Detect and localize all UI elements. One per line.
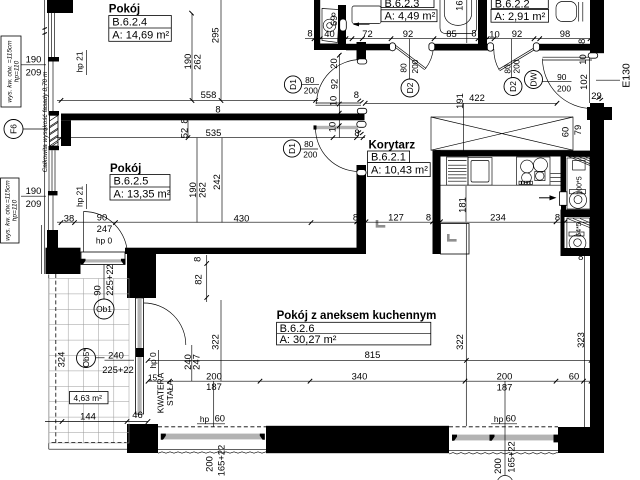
leader line F6 bbox=[23, 128, 48, 130]
door reference circle D1 (B.6.2.4) bbox=[284, 76, 301, 93]
svg-text:8: 8 bbox=[354, 127, 359, 138]
svg-text:hp: hp bbox=[200, 414, 210, 424]
door hinge nib on corner block bbox=[80, 259, 85, 264]
dim line H1 over bathroom doors y=38.7 bbox=[305, 38, 592, 40]
svg-text:322: 322 bbox=[210, 334, 221, 350]
balcony dashed edge lines bbox=[55, 274, 57, 443]
fraction line 190/209 lower bbox=[21, 195, 46, 197]
ventilation arrow to shaft bbox=[539, 197, 551, 199]
wall: bottom wall of B.6.2.5 (to corridor) bbox=[125, 248, 365, 254]
opening reference circle Ob5* bbox=[77, 349, 96, 368]
svg-text:240: 240 bbox=[108, 349, 124, 360]
balcony tile grid lines bbox=[49, 279, 129, 444]
kitchen counter edge line bbox=[441, 184, 561, 186]
vertical line hp21 lower bbox=[86, 184, 88, 209]
svg-text:52: 52 bbox=[179, 128, 190, 138]
vertical dim line V14 (Ob1 leader) bbox=[103, 265, 105, 300]
vertical fraction line 240/247 bbox=[191, 345, 193, 381]
svg-text:422: 422 bbox=[469, 92, 485, 103]
svg-text:72: 72 bbox=[362, 28, 372, 39]
svg-text:181: 181 bbox=[456, 197, 467, 213]
svg-text:190: 190 bbox=[26, 185, 42, 196]
wall: corridor west wall upper stub bbox=[357, 42, 367, 60]
svg-text:234: 234 bbox=[490, 212, 506, 223]
svg-text:E130: E130 bbox=[621, 63, 633, 88]
wall cap below window W1 bbox=[48, 57, 59, 62]
door reference circle D1 (B.6.2.5) bbox=[283, 140, 300, 157]
svg-text:B.6.2.2: B.6.2.2 bbox=[495, 0, 530, 10]
shaft vent white box bbox=[560, 192, 568, 206]
svg-text:80: 80 bbox=[305, 75, 315, 85]
shaft compartment 1 box bbox=[567, 158, 590, 209]
svg-text:20: 20 bbox=[328, 58, 339, 68]
vertical line at D2 circle B.6.2.2 bbox=[511, 39, 513, 78]
svg-text:hp 0: hp 0 bbox=[96, 236, 113, 246]
svg-text:191: 191 bbox=[454, 93, 465, 109]
svg-text:100*5: 100*5 bbox=[577, 176, 584, 194]
svg-text:144: 144 bbox=[80, 410, 96, 421]
svg-text:92: 92 bbox=[328, 79, 339, 89]
wall: shaft bottom block bbox=[561, 248, 592, 256]
wall: SE exterior corner block bbox=[558, 427, 604, 453]
opening reference circle Ob1 bbox=[94, 299, 114, 319]
wall: top-left exterior block bbox=[47, 0, 73, 13]
svg-text:D1: D1 bbox=[288, 79, 298, 90]
svg-text:60: 60 bbox=[215, 413, 225, 424]
svg-text:A: 30,27 m²: A: 30,27 m² bbox=[280, 334, 337, 346]
svg-text:190: 190 bbox=[26, 53, 42, 64]
vertical short line 52/8 left bbox=[187, 121, 189, 138]
wall: shaft partition left upper bbox=[561, 156, 567, 192]
svg-text:A: 2,91 m²: A: 2,91 m² bbox=[495, 11, 546, 23]
svg-text:Ob1: Ob1 bbox=[96, 304, 112, 314]
wall: left pier below (thin lines then solid) bbox=[48, 195, 53, 231]
wall: corridor east / kitchen west wall bbox=[433, 151, 441, 254]
svg-text:D2: D2 bbox=[405, 82, 415, 93]
svg-text:8: 8 bbox=[215, 103, 220, 114]
wall cap below hatched pier bbox=[49, 146, 60, 150]
wall: shaft partition left lower bbox=[561, 217, 565, 248]
svg-text:60: 60 bbox=[506, 413, 516, 424]
svg-text:225+22: 225+22 bbox=[102, 364, 134, 375]
svg-text:69: 69 bbox=[328, 16, 339, 26]
svg-text:Pokój: Pokój bbox=[109, 4, 140, 16]
vertical dim line V10 (hp60 left window) bbox=[213, 381, 215, 426]
svg-text:STAŁA: STAŁA bbox=[165, 380, 175, 406]
svg-text:10: 10 bbox=[328, 96, 339, 106]
svg-text:B.6.2.5: B.6.2.5 bbox=[114, 176, 149, 188]
wall: stub below main wall at left bbox=[61, 120, 71, 146]
wall: shaft horizontal band bbox=[561, 210, 591, 218]
wall: kitchen north wall bbox=[435, 151, 592, 157]
svg-text:815: 815 bbox=[365, 349, 381, 360]
svg-text:29: 29 bbox=[591, 90, 601, 101]
room label B.6.2.2 bbox=[491, 0, 548, 8]
svg-text:209: 209 bbox=[26, 67, 42, 78]
svg-text:247: 247 bbox=[191, 354, 202, 370]
dim line H9 balcony y=421.5 bbox=[45, 421, 148, 423]
wall: B.6.2.3 south wall (left of door) bbox=[346, 44, 391, 51]
svg-text:8: 8 bbox=[471, 28, 476, 39]
balcony slab edge bottom bbox=[49, 448, 129, 450]
floor level mark corridor bbox=[377, 220, 385, 226]
shaft pipe stack 2 (toilet symbol) bbox=[569, 232, 584, 236]
svg-text:187: 187 bbox=[497, 382, 513, 393]
svg-text:Korytarz: Korytarz bbox=[369, 140, 416, 152]
svg-text:200: 200 bbox=[492, 458, 503, 474]
wall: east exterior wall column bbox=[590, 103, 604, 443]
svg-text:200: 200 bbox=[304, 86, 318, 96]
kitchen appliance (fridge) hatched box bbox=[447, 157, 469, 185]
wall: pillar at balcony NE bbox=[127, 254, 156, 298]
washbasin in shaft closet (40x69) bbox=[322, 9, 340, 43]
svg-text:322: 322 bbox=[454, 334, 465, 350]
svg-text:90: 90 bbox=[557, 72, 567, 82]
svg-text:558: 558 bbox=[201, 89, 217, 100]
wall: south wall between windows bbox=[266, 426, 449, 453]
svg-text:102: 102 bbox=[578, 74, 589, 90]
svg-text:4,63 m²: 4,63 m² bbox=[74, 393, 103, 403]
shaft compartment 2 box bbox=[567, 218, 590, 249]
svg-text:295: 295 bbox=[210, 27, 221, 43]
door reference circle DW bbox=[525, 71, 543, 89]
door reference circle D2 (B.6.2.2) bbox=[504, 78, 522, 96]
fixed glazing west wall (KWATERA STALA) bbox=[136, 298, 144, 414]
svg-text:wys. kw. otw.=115cm: wys. kw. otw.=115cm bbox=[5, 180, 12, 241]
svg-text:60: 60 bbox=[569, 371, 579, 382]
svg-text:187: 187 bbox=[206, 381, 222, 392]
facade reference circle F6 bbox=[4, 120, 23, 139]
svg-text:79: 79 bbox=[572, 125, 583, 135]
svg-text:225+22: 225+22 bbox=[104, 264, 115, 296]
svg-text:B.6.2.1: B.6.2.1 bbox=[371, 152, 406, 164]
svg-text:340: 340 bbox=[352, 371, 368, 382]
vertical dim line V4 (242) bbox=[221, 138, 223, 223]
dim line H3 "422" y=103.3 bbox=[365, 102, 557, 104]
svg-text:165+22: 165+22 bbox=[215, 445, 226, 477]
svg-text:hp=110: hp=110 bbox=[12, 199, 19, 221]
svg-text:8: 8 bbox=[307, 28, 312, 39]
svg-text:8: 8 bbox=[555, 212, 560, 223]
floor level mark kitchen/living bbox=[448, 234, 456, 240]
dim line H4 "535" y=137.6 bbox=[57, 137, 365, 139]
wall: NE exterior corner bbox=[590, 0, 604, 53]
svg-text:127: 127 bbox=[388, 212, 404, 223]
south window 2 (living room) bbox=[449, 426, 559, 454]
crossed ceiling rectangle over kitchen bbox=[431, 117, 573, 150]
svg-text:8: 8 bbox=[354, 89, 359, 100]
fraction/leader line DW 90/200 bbox=[543, 81, 572, 83]
dim line H6 B.6.2.5 south y=222.6 bbox=[57, 221, 352, 223]
vertical dim line V9 (322 left) bbox=[220, 300, 222, 381]
partition white box corridor/living bbox=[441, 224, 470, 255]
wall: shaft left wall (top middle) bbox=[314, 0, 320, 50]
door D1 to B.6.2.4: leaf open + swing arc bbox=[316, 103, 362, 105]
svg-text:8: 8 bbox=[179, 118, 190, 123]
wall: shaft right wall with door jamb bbox=[338, 5, 346, 44]
leader line E130 bbox=[596, 79, 620, 81]
wall: shaft bottom wall bbox=[314, 44, 346, 51]
door D2 to B.6.2.3: diagonal leaf + arc + jambs bbox=[394, 45, 426, 70]
wall: corridor west wall lower bbox=[357, 165, 367, 254]
vertical line hp21 upper bbox=[86, 50, 88, 75]
svg-text:10: 10 bbox=[327, 122, 338, 132]
svg-text:60: 60 bbox=[560, 127, 571, 137]
tick pair at wall 8 right of D1 bbox=[358, 99, 364, 104]
svg-text:160: 160 bbox=[454, 0, 465, 11]
left annotation box upper bbox=[1, 36, 21, 107]
svg-text:8: 8 bbox=[353, 212, 358, 223]
svg-text:200: 200 bbox=[410, 59, 420, 73]
washbasin in B.6.2.2 bbox=[556, 2, 577, 22]
fraction line D1 lower 80/200 bbox=[301, 148, 318, 150]
wall: south window wall corner block W bbox=[127, 424, 158, 453]
svg-text:A: 10,43 m²: A: 10,43 m² bbox=[371, 165, 428, 177]
svg-text:323: 323 bbox=[575, 332, 586, 348]
svg-text:Pokój z aneksem kuchennym: Pokój z aneksem kuchennym bbox=[277, 310, 437, 322]
balcony slab edge left bbox=[48, 275, 50, 450]
wall: main interior wall between B.6.2.4 and B.6.2.5 bbox=[61, 114, 365, 121]
kitchen stove with burners bbox=[517, 157, 551, 185]
svg-text:A: 13,35 m²: A: 13,35 m² bbox=[114, 189, 171, 201]
vertical dim line V5 (20/92/10 door D1) bbox=[338, 54, 340, 138]
svg-text:430: 430 bbox=[234, 212, 250, 223]
svg-text:82: 82 bbox=[192, 274, 203, 284]
svg-text:98: 98 bbox=[560, 28, 570, 39]
svg-text:92: 92 bbox=[403, 28, 413, 39]
svg-text:80: 80 bbox=[399, 63, 409, 73]
svg-text:B.6.2.3: B.6.2.3 bbox=[385, 0, 420, 10]
svg-text:242: 242 bbox=[211, 174, 222, 190]
svg-text:200: 200 bbox=[303, 150, 317, 160]
vertical dim line V7 (191 corridor) bbox=[463, 103, 465, 152]
bathtub in B.6.2.3 bbox=[440, 0, 477, 34]
dim line H5 corridor/kitchen y=221.8 bbox=[352, 221, 592, 223]
wall cap above hatched pier bbox=[49, 111, 60, 115]
svg-text:90: 90 bbox=[97, 212, 107, 223]
underline hp60 right bbox=[491, 423, 517, 425]
vertical dim line V1 (190/262 B.6.2.4) bbox=[191, 13, 193, 100]
svg-text:8: 8 bbox=[191, 257, 202, 262]
svg-text:hp=110: hp=110 bbox=[14, 60, 21, 82]
svg-text:D1: D1 bbox=[287, 143, 297, 154]
vertical line hp0 glazing bbox=[158, 350, 160, 377]
svg-text:46: 46 bbox=[132, 409, 142, 420]
svg-text:200: 200 bbox=[511, 59, 521, 73]
dim line H2 "558" y=100.4 bbox=[57, 99, 318, 101]
svg-text:90: 90 bbox=[91, 285, 102, 295]
svg-text:B.6.2.4: B.6.2.4 bbox=[112, 16, 147, 28]
svg-text:Ob5*: Ob5* bbox=[81, 348, 91, 368]
svg-text:A: 4,49 m²: A: 4,49 m² bbox=[385, 11, 436, 23]
balcony door threshold band bbox=[81, 252, 125, 265]
wall cap below window W2 bbox=[48, 191, 58, 195]
svg-text:Pokój: Pokój bbox=[110, 163, 141, 175]
svg-text:247: 247 bbox=[97, 223, 113, 234]
vertical line at D2 circle B.6.2.3 bbox=[409, 39, 411, 79]
fraction line 190/209 upper bbox=[21, 64, 46, 66]
wall: B.6.2.3/B.6.2.2 south wall between doors bbox=[434, 44, 488, 51]
svg-text:92: 92 bbox=[512, 28, 522, 39]
svg-text:hp: hp bbox=[494, 414, 504, 424]
left annotation box lower bbox=[1, 178, 20, 243]
svg-text:10: 10 bbox=[577, 54, 588, 64]
kitchen sink bbox=[468, 158, 492, 186]
underline hp60 left bbox=[197, 423, 225, 425]
svg-text:KWATERA: KWATERA bbox=[156, 372, 166, 413]
shaft hatch wedge 1 bbox=[569, 157, 591, 166]
svg-text:262: 262 bbox=[192, 54, 203, 70]
door D1 B.6.2.4 jamb bbox=[357, 108, 367, 114]
vertical line right wall dims (10/102) bbox=[589, 58, 591, 103]
wall: B.6.2.2 south wall east part bbox=[539, 44, 590, 51]
fraction line D1 upper 80/200 bbox=[302, 84, 319, 86]
balcony door of B.6.2.5: leaf line + swing arc bbox=[83, 212, 85, 253]
shaft pipe stack 1 (toilet symbol) bbox=[570, 190, 586, 194]
vertical dim line V12 (323) bbox=[584, 255, 586, 427]
dim line H7 "815" y=360.4 bbox=[148, 359, 591, 361]
window W2 left (B.6.2.5) bbox=[49, 150, 55, 191]
svg-text:85: 85 bbox=[446, 28, 456, 39]
dim line H8 south segments y=381.2 bbox=[148, 380, 591, 382]
vertical line 181 kitchen bbox=[465, 186, 467, 222]
glazing mid nib bbox=[136, 348, 144, 357]
dim line balcony "240" y=360.2 bbox=[105, 359, 135, 361]
door D2 to B.6.2.2: diagonal leaf + arc + jambs bbox=[499, 47, 536, 71]
svg-text:200: 200 bbox=[203, 456, 214, 472]
svg-text:Całkowita wysokość fasady 8,70: Całkowita wysokość fasady 8,70 m bbox=[42, 71, 49, 172]
wall: divider between B.6.2.3 and B.6.2.2 bbox=[478, 0, 487, 47]
window W1 left (B.6.2.4) frame lines bbox=[48, 13, 54, 57]
hatched structural pier (left wall) bbox=[50, 115, 59, 146]
balcony tile grid frame bbox=[49, 279, 129, 444]
vertical dim line V2 (295) bbox=[220, 0, 222, 100]
svg-text:38: 38 bbox=[64, 212, 74, 223]
svg-text:200: 200 bbox=[557, 83, 571, 93]
wall: left pier thin lines between windows bbox=[49, 62, 53, 112]
svg-text:8: 8 bbox=[578, 251, 583, 262]
svg-text:165+22: 165+22 bbox=[506, 441, 517, 473]
svg-text:8: 8 bbox=[426, 212, 431, 223]
svg-text:wys. kw. otw. =115cm: wys. kw. otw. =115cm bbox=[7, 40, 14, 103]
svg-text:535: 535 bbox=[206, 127, 222, 138]
section circle bottom bbox=[497, 476, 513, 480]
svg-text:80: 80 bbox=[304, 139, 314, 149]
svg-text:262: 262 bbox=[197, 182, 208, 198]
svg-text:8: 8 bbox=[576, 39, 587, 44]
svg-text:D2: D2 bbox=[508, 81, 518, 92]
wall: corner block SW of B.6.2.5 bbox=[46, 248, 81, 274]
door D1 to B.6.2.5 from corridor: gray leaf + arc + jambs bbox=[315, 126, 358, 129]
svg-text:209: 209 bbox=[26, 198, 42, 209]
vertical dim line V3 (190/262 B.6.2.5) bbox=[196, 138, 198, 223]
svg-text:200: 200 bbox=[497, 371, 513, 382]
svg-text:DW: DW bbox=[529, 72, 539, 86]
svg-text:hp 21: hp 21 bbox=[75, 186, 85, 207]
svg-text:F6: F6 bbox=[9, 124, 19, 134]
svg-text:hp 21: hp 21 bbox=[75, 51, 85, 72]
balcony area label box 4,63 m2 bbox=[70, 392, 109, 404]
facade edge thin line left bbox=[44, 0, 46, 274]
svg-text:B.6.2.6: B.6.2.6 bbox=[280, 323, 315, 335]
entrance door DW: open leaf + swing arc + jamb bbox=[543, 57, 593, 60]
washing machine in B.6.2.3 bbox=[352, 6, 381, 24]
vertical dim line V11 (hp60 right window + section) bbox=[504, 381, 506, 475]
south window 1 (living room) bbox=[158, 426, 266, 453]
living room west glazed door swing arc bbox=[144, 303, 186, 345]
svg-text:10: 10 bbox=[489, 28, 499, 39]
vertical dim line V16 (8/82 pillar) bbox=[206, 255, 208, 302]
vertical dim line V8 (322 right) bbox=[465, 254, 467, 426]
svg-text:40: 40 bbox=[324, 28, 334, 39]
svg-text:A: 14,69 m²: A: 14,69 m² bbox=[112, 30, 169, 42]
svg-text:324: 324 bbox=[55, 352, 66, 368]
door reference circle D2 (B.6.2.3) bbox=[401, 79, 419, 97]
room label B.6.2.3 bbox=[381, 0, 434, 8]
svg-text:64*5: 64*5 bbox=[576, 222, 583, 237]
svg-text:hp 0: hp 0 bbox=[148, 352, 158, 369]
